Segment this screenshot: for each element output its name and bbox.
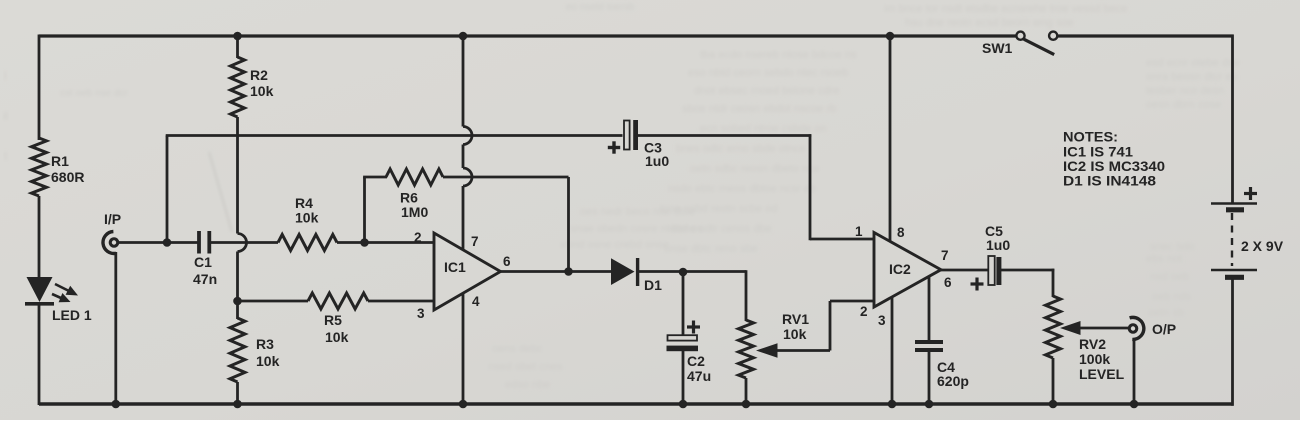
svg-text:680R: 680R: [51, 169, 84, 185]
capacitor C2 plus plate: [668, 335, 698, 340]
svg-text:D1 IS IN4148: D1 IS IN4148: [1063, 173, 1156, 189]
switch SW1 left contact: [1016, 32, 1024, 40]
capacitor C4: [915, 340, 943, 344]
svg-text:6: 6: [503, 254, 511, 269]
wire C2 top: [682, 272, 685, 337]
switch SW1 right contact: [1049, 32, 1057, 40]
svg-text:il: il: [3, 109, 8, 123]
svg-text:RV2: RV2: [1079, 336, 1106, 352]
wire IC2 pin3 ground: [891, 298, 894, 406]
wire LED1 to bottom rail: [38, 304, 41, 405]
node junction IC2 pin8 top rail: [886, 32, 895, 41]
svg-text:im bnce tor nsdt etsdbe ecnsre: im bnce tor nsdt etsdbe ecnsrehe troe ve…: [884, 3, 1127, 15]
node junction feedback: [564, 267, 573, 276]
wire hop to R3 junction: [236, 252, 239, 303]
svg-text:10k: 10k: [783, 326, 807, 342]
node junction input: [163, 238, 172, 247]
svg-text:10k: 10k: [250, 83, 274, 99]
svg-text:eso nbtd ceorn sebdo ntec rsoe: eso nbtd ceorn sebdo ntec rsoeb: [688, 67, 848, 79]
diode D1: [611, 258, 635, 285]
svg-text:oesn dbrn cose: oesn dbrn cose: [1146, 99, 1221, 111]
resistor R1: [32, 138, 47, 196]
wire input junction up: [166, 136, 169, 243]
wire pin7 to IC1: [462, 186, 465, 251]
wire battery to bottom rail: [1231, 278, 1234, 406]
svg-text:C1: C1: [194, 254, 212, 270]
resistor R3: [230, 318, 245, 382]
svg-text:IC2: IC2: [889, 261, 911, 277]
wire C3 to IC2 pin1 corner: [637, 134, 811, 137]
wire C5 to RV2 corner: [1001, 269, 1054, 272]
node junction RV1 bottom rail: [742, 400, 751, 409]
wire hop over input wire: [238, 234, 247, 252]
svg-text:6: 6: [944, 275, 952, 290]
battery BT1 cell2 long plate: [1211, 269, 1257, 272]
wire IC1 pin4 to bottom rail: [462, 293, 465, 406]
svg-text:ebnd osne crebd onse: ebnd osne crebd onse: [560, 239, 669, 251]
svg-text:nsd oeb: nsd oeb: [1150, 271, 1189, 283]
wire IC1 pin7 supply upper: [462, 36, 465, 127]
wire C4 top: [928, 277, 931, 343]
svg-text:RV1: RV1: [782, 311, 809, 327]
svg-text:47u: 47u: [687, 368, 711, 384]
svg-text:1u0: 1u0: [645, 153, 669, 169]
wire R4 to IC1 pin2: [337, 241, 434, 244]
node junction O/P bottom rail: [1130, 400, 1139, 409]
svg-text:7: 7: [471, 234, 479, 249]
node junction IC2 pin3 bottom rail: [888, 400, 897, 409]
wire junction to R3: [236, 301, 239, 319]
node junction R3 bottom rail: [233, 400, 242, 409]
svg-text:edso nbe: edso nbe: [505, 379, 550, 391]
wire top feed to C3: [166, 134, 623, 137]
capacitor C2 minus plate: [667, 346, 699, 352]
wire pin7 between hops: [462, 145, 465, 169]
wire bottom rail: [39, 402, 1234, 406]
wire R6 to feedback corner: [443, 176, 569, 179]
wire R1 to LED1: [38, 196, 41, 278]
node junction R3/R5: [233, 297, 242, 306]
wire RV1 wiper to IC2 pin2: [829, 301, 832, 351]
svg-text:oetn sdbc reosn dbeto nce: oetn sdbc reosn dbeto nce: [690, 163, 820, 175]
svg-text:snec bdo: snec bdo: [1150, 241, 1195, 253]
svg-text:R1: R1: [51, 153, 69, 169]
node junction IC1 pin7 top rail: [459, 32, 468, 41]
node junction IC1 pin4 bottom rail: [459, 400, 468, 409]
LED1 cathode bar: [25, 302, 54, 306]
diode D1 cathode bar: [636, 258, 639, 286]
wire top rail left segment: [39, 34, 1017, 37]
label C3 polarity: [608, 146, 620, 149]
svg-text:sboe ntdr ceosn ebdot nscoe rb: sboe ntdr ceosn ebdot nscoe rb: [682, 103, 836, 115]
wire R5 to IC1 pin3: [368, 300, 434, 303]
svg-text:8: 8: [897, 225, 905, 240]
svg-text:bnes odtc erno sbde otnce: bnes odtc erno sbde otnce: [676, 143, 806, 155]
terminal O/P center pin: [1128, 323, 1139, 334]
wire RV2 to bottom rail: [1052, 358, 1055, 405]
resistor R2: [231, 57, 245, 117]
svg-text:4: 4: [472, 294, 480, 309]
svg-text:hsu dne reotn ecsd beorn wng s: hsu dne reotn ecsd beorn wng soe: [905, 17, 1074, 29]
svg-text:R3: R3: [256, 336, 274, 352]
battery BT1 cell2 short plate: [1225, 275, 1244, 280]
label C5 polarity: [971, 282, 984, 285]
wire R2 to hop: [236, 117, 239, 234]
wire hop over C3 feed: [463, 127, 472, 145]
wire feedback vertical: [567, 177, 570, 272]
svg-text:NOTES:: NOTES:: [1063, 129, 1118, 145]
wire top rail to R2: [236, 36, 239, 58]
label C2 polarity: [687, 325, 700, 328]
node junction R6 tap: [360, 238, 369, 247]
svg-text:R2: R2: [250, 67, 268, 83]
resistor R4: [278, 235, 337, 251]
LED1 emission arrows: [52, 284, 78, 302]
svg-text:cst oeb nse dcr: cst oeb nse dcr: [60, 88, 128, 99]
svg-text:esd ecnr otebe dse: esd ecnr otebe dse: [1146, 57, 1240, 69]
svg-text:eo nseld toersb: eo nseld toersb: [566, 2, 635, 13]
LED LED1: [27, 277, 53, 302]
battery BT1 cell1 long plate: [1211, 202, 1257, 205]
svg-text:O/P: O/P: [1152, 321, 1176, 337]
svg-text:oetn sb: oetn sb: [1148, 307, 1184, 319]
op-amp U2 IC2: [874, 233, 941, 308]
terminal I/P center pin: [109, 237, 120, 248]
wire left vertical from top rail to R1: [38, 35, 41, 141]
RV2 wiper arrow: [1060, 321, 1081, 335]
wire I/P to C1: [119, 241, 198, 244]
svg-text:C2: C2: [687, 353, 705, 369]
wire D1 to RV1 corner: [639, 270, 746, 273]
svg-text:SW1: SW1: [982, 40, 1013, 56]
RV1 wiper arrow: [756, 343, 778, 358]
svg-text:620p: 620p: [937, 373, 969, 389]
svg-text:7: 7: [941, 248, 949, 263]
svg-text:LED 1: LED 1: [52, 307, 92, 323]
capacitor C5 plus plate: [988, 256, 994, 285]
svg-text:tesber nco desn: tesber nco desn: [1146, 85, 1224, 97]
battery link dashed: [1231, 213, 1233, 266]
capacitor C3 plus plate: [624, 121, 630, 150]
node junction C4 bottom rail: [925, 400, 934, 409]
node junction R2 top rail: [233, 32, 242, 41]
svg-text:R5: R5: [324, 312, 342, 328]
node junction RV2 bottom rail: [1049, 400, 1058, 409]
terminal I/P outer shell: [103, 232, 116, 254]
wire top rail right segment: [1058, 34, 1234, 37]
svg-text:ecn sobed ntroe csbde on: ecn sobed ntroe csbde on: [700, 123, 827, 135]
potentiometer RV1: [739, 320, 754, 378]
node junction C2 tap: [679, 268, 688, 277]
svg-text:D1: D1: [644, 277, 662, 293]
wire top rail to battery: [1231, 35, 1234, 205]
potentiometer RV2: [1046, 296, 1061, 358]
svg-text:1: 1: [855, 224, 863, 239]
battery polarity plus: [1244, 192, 1257, 195]
svg-text:3: 3: [417, 306, 425, 321]
wire I/P to bottom rail: [114, 252, 117, 405]
svg-text:10k: 10k: [325, 329, 349, 345]
svg-text:onra beosn dtcr es: onra beosn dtcr es: [1146, 71, 1238, 83]
wire C2 to bottom rail: [682, 351, 685, 405]
svg-text:47n: 47n: [193, 271, 217, 287]
wire R3 to bottom rail: [236, 382, 239, 405]
capacitor C5 minus plate: [996, 257, 1001, 285]
svg-text:dnot ebsec rnoed bstone cdre: dnot ebsec rnoed bstone cdre: [694, 85, 840, 97]
svg-text:100k: 100k: [1079, 351, 1110, 367]
resistor R6: [386, 169, 443, 185]
svg-text:nsdo ebtc rneos dbtoe ncsr eb: nsdo ebtc rneos dbtoe ncsr eb: [668, 183, 816, 195]
resistor R5: [308, 293, 368, 309]
wire R5 from junction: [238, 300, 309, 303]
svg-text:I/P: I/P: [104, 211, 121, 227]
wire IC2 output: [941, 269, 989, 272]
wire pin1 vertical: [809, 134, 812, 240]
svg-text:1M0: 1M0: [401, 204, 428, 220]
switch SW1 blade: [1024, 39, 1054, 54]
svg-text:10k: 10k: [256, 353, 280, 369]
svg-text:tcoe nsbd reotn scbe od: tcoe nsbd reotn scbe od: [660, 203, 777, 215]
wire IC1 output: [501, 270, 613, 273]
capacitor C1: [197, 231, 201, 254]
svg-text:1u0: 1u0: [986, 237, 1010, 253]
svg-text:bsne odtr cenos dbe: bsne odtr cenos dbe: [672, 223, 772, 235]
wire O/P to bottom rail: [1133, 339, 1136, 406]
terminal O/P outer shell: [1130, 317, 1144, 339]
wire IC2 pin8 supply: [889, 36, 892, 242]
svg-text:2: 2: [860, 304, 868, 319]
svg-text:3: 3: [878, 313, 886, 328]
op-amp U1 IC1: [434, 233, 501, 310]
svg-text:l: l: [4, 69, 7, 83]
svg-text:LEVEL: LEVEL: [1079, 366, 1125, 382]
svg-text:2 X 9V: 2 X 9V: [1241, 238, 1284, 254]
wire pin1 horizontal: [810, 238, 874, 241]
svg-text:oens debc: oens debc: [492, 343, 543, 355]
svg-text:2: 2: [414, 230, 422, 245]
svg-text:oeb nds: oeb nds: [1152, 291, 1192, 303]
battery BT1 cell1 short plate: [1226, 207, 1244, 212]
node junction C2 bottom rail: [679, 400, 688, 409]
svg-text:ebs not: ebs not: [1146, 253, 1182, 265]
wire D1 node to RV1: [745, 270, 748, 321]
svg-text:IC1: IC1: [444, 259, 466, 275]
svg-text:onse dbtc reno sbe: onse dbtc reno sbe: [664, 243, 758, 255]
svg-text:nsed obet cnes: nsed obet cnes: [488, 361, 563, 373]
wire RV1 to bottom rail: [745, 378, 748, 405]
svg-text:10k: 10k: [295, 210, 319, 226]
wire R6 left leg: [363, 177, 366, 243]
capacitor C3 minus plate: [633, 120, 638, 150]
node junction I/P tail on bottom rail: [112, 400, 121, 409]
wire C1 to R4: [211, 241, 278, 244]
svg-text:tba ecdo nsereb ntose bdcoe ns: tba ecdo nsereb ntose bdcoe ns: [700, 49, 857, 61]
wire C4 to bottom rail: [928, 352, 931, 405]
wire hop over R6 wire: [463, 168, 472, 186]
